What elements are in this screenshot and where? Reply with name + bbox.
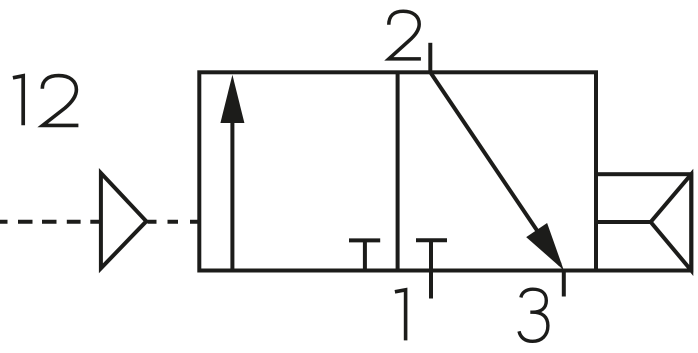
right pilot inner line — [598, 220, 651, 224]
port 3 connection stub — [562, 271, 566, 297]
wire: pilot dashed line left of triangle — [0, 220, 100, 224]
arrow: flow path 1->2 (left square) — [220, 75, 244, 271]
port 2 connection stub — [428, 43, 432, 73]
label 12 (pilot port) : digit 1 — [13, 76, 23, 126]
arrow: flow path 2->3 (right square) — [430, 72, 564, 270]
port 1 connection stub — [429, 240, 433, 298]
right pilot box (air return) — [596, 174, 691, 270]
blocked port T (port 3 position, left square) — [349, 240, 380, 270]
wire: pilot dashed line right of triangle — [148, 220, 200, 224]
valve body outer box — [199, 72, 596, 270]
pilot triangle (air pilot actuator) — [101, 173, 146, 268]
right pilot triangle — [651, 174, 692, 270]
blocked port T (port 1, right square) — [416, 238, 447, 242]
label 2 (port 2) — [389, 11, 421, 59]
label 12 (pilot port) : digit 2 — [42, 76, 78, 126]
label 1 (port 1) — [395, 290, 406, 341]
valve position divider — [396, 72, 400, 270]
label 3 (port 3) — [519, 289, 548, 341]
